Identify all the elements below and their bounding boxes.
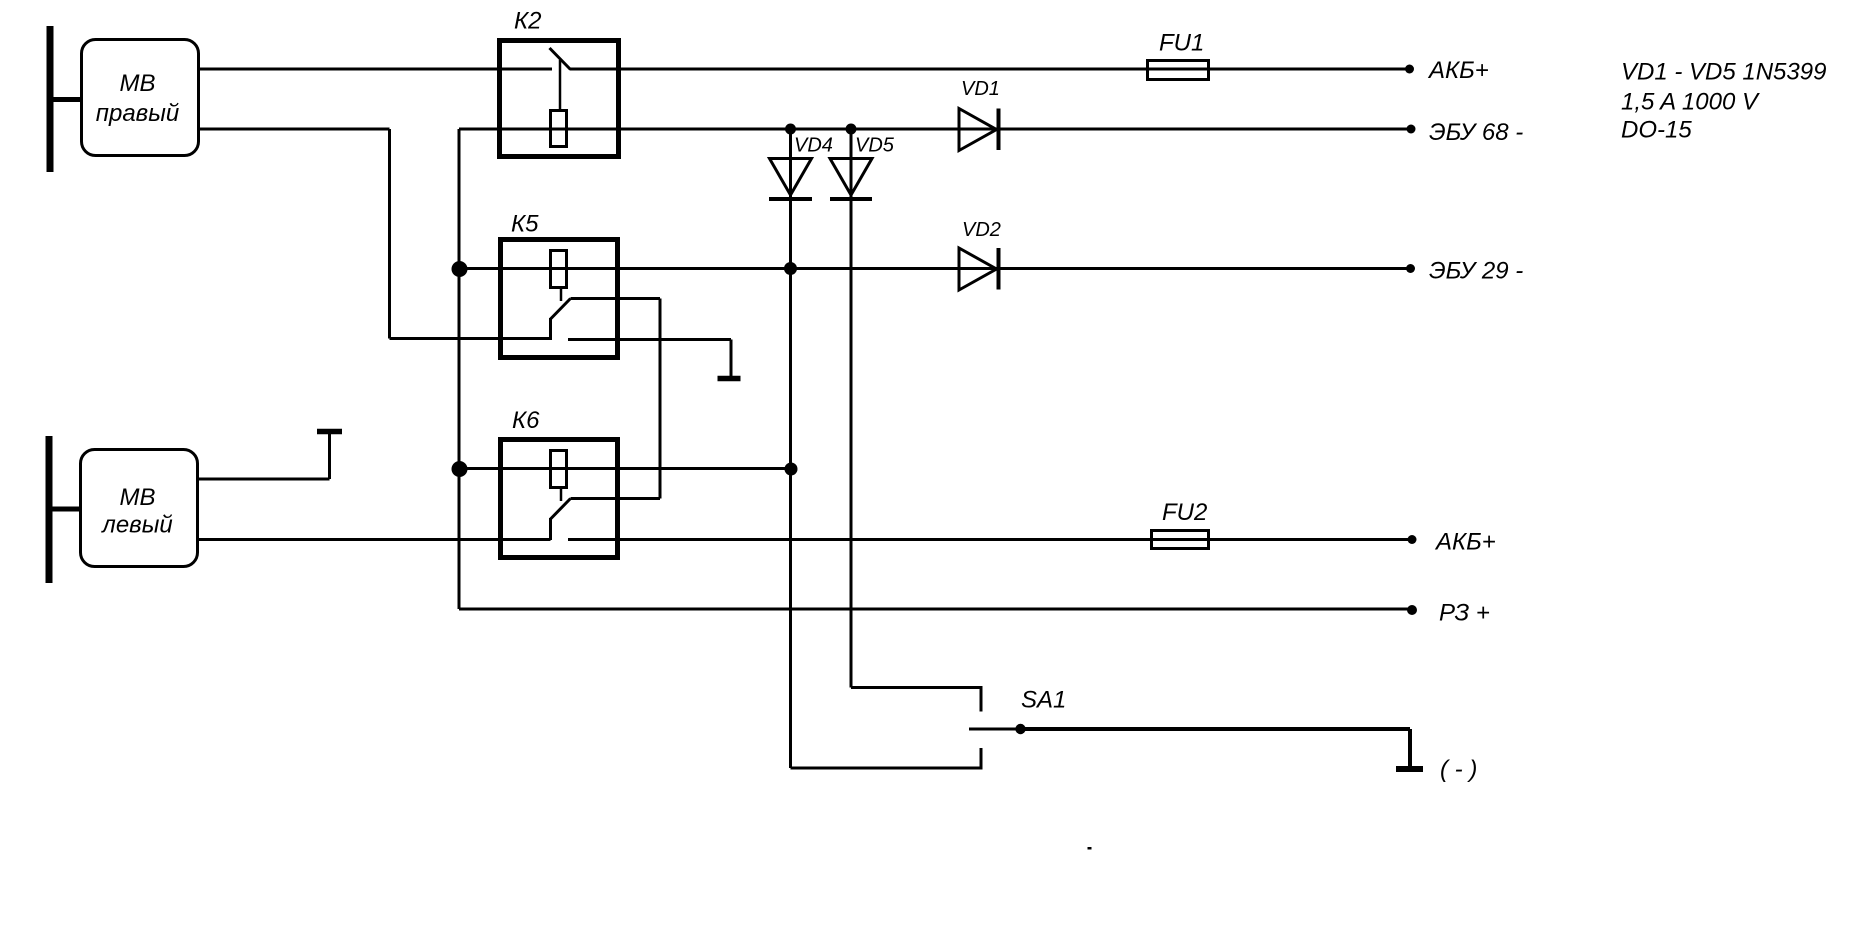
svg-text:РЗ +: РЗ + [1439, 600, 1490, 627]
wire EBU68 line y129 [459, 128, 1410, 131]
wire VD5 vertical x851 [850, 129, 853, 688]
svg-text:К5: К5 [511, 211, 539, 238]
wire MB left top to chassis [197, 478, 330, 481]
relay K5 blade pivot stub [549, 318, 552, 340]
diode VD5 cathode bar [830, 197, 872, 201]
svg-text:FU2: FU2 [1162, 499, 1207, 526]
node VD5 top junction [846, 124, 857, 135]
svg-text:SA1: SA1 [1021, 687, 1066, 714]
svg-text:правый: правый [96, 100, 179, 127]
diode VD1 [959, 109, 997, 151]
motor block MB left [81, 450, 198, 567]
svg-text:ЭБУ 68 -: ЭБУ 68 - [1429, 119, 1523, 146]
svg-text:левый: левый [100, 512, 172, 539]
wire vertical x660 K5 to K6 [659, 299, 662, 499]
relay K2 actuator link [559, 60, 562, 110]
motor MB right stub wire [52, 97, 82, 102]
svg-text:VD5: VD5 [855, 135, 895, 157]
wire vertical down at x389 [388, 129, 391, 339]
wire K6 coil feed [459, 467, 791, 470]
motor MB right terminal bar [47, 26, 54, 172]
diode VD5 [830, 159, 872, 196]
svg-text:АКБ+: АКБ+ [1434, 529, 1496, 556]
node K6 coil to VD4 junction [785, 463, 798, 476]
relay K5 coil to blade link [560, 288, 563, 301]
connector stub upper SA1 [980, 686, 983, 712]
relay K6 coil [551, 451, 567, 488]
switch SA1 pivot dot [1015, 724, 1025, 734]
motor block MB right [82, 40, 199, 156]
svg-text:VD4: VD4 [794, 135, 833, 157]
ground chassis bar K5 [718, 376, 741, 382]
wire VD5 to SA1 upper [851, 686, 981, 689]
wire K2 output to FU1 and AKB+ [570, 68, 1409, 71]
svg-text:МВ: МВ [120, 484, 156, 511]
node K6 coil junction [452, 461, 468, 477]
connector stub lower SA1 [980, 748, 983, 770]
wire K6 NO contact to x660 [571, 497, 661, 500]
svg-text:1,5 A 1000 V: 1,5 A 1000 V [1621, 89, 1760, 116]
node K5 coil junction [452, 261, 468, 277]
svg-text:К6: К6 [512, 407, 540, 434]
diode VD2 cathode bar [997, 248, 1001, 290]
diode VD4 cathode bar [769, 197, 812, 201]
wire SA1 to minus [1021, 727, 1411, 731]
relay K6 box [501, 440, 618, 558]
relay K5 switch blade [551, 299, 571, 320]
svg-text:FU1: FU1 [1159, 30, 1204, 57]
svg-text:DO-15: DO-15 [1621, 117, 1692, 144]
wire K5 right contact [568, 338, 731, 341]
terminal dot AKB+ bottom [1408, 535, 1417, 544]
ground chassis bar minus [1396, 766, 1423, 772]
node VD4 top junction [785, 124, 796, 135]
wire minus drop [1408, 729, 1412, 767]
wire MB left bottom to K6 common [197, 538, 551, 541]
diode VD1 cathode bar [997, 109, 1001, 151]
terminal dot AKB+ top [1405, 65, 1414, 74]
wire K5 contact ground drop [730, 340, 733, 377]
wire VD4 to SA1 lower [791, 767, 982, 770]
wire VD4 vertical x790 [789, 129, 792, 768]
svg-text:МВ: МВ [120, 70, 156, 97]
svg-text:VD2: VD2 [962, 219, 1001, 241]
wire RZ+ line y609 [459, 608, 1412, 611]
diode VD4 [770, 159, 812, 196]
relay K5 coil [551, 251, 567, 288]
relay K6 blade pivot stub [549, 518, 552, 540]
relay K5 box [501, 240, 618, 358]
diode VD2 [959, 248, 997, 290]
svg-text:( - ): ( - ) [1440, 756, 1477, 783]
node VD4 anode junction [784, 262, 797, 275]
fuse FU1 [1148, 61, 1209, 80]
wire MB right top to K2 [198, 68, 552, 71]
terminal dot EBU68 [1407, 125, 1416, 134]
switch SA1 blade [969, 728, 1021, 731]
relay K2 box [500, 41, 619, 157]
svg-text:VD1: VD1 [961, 78, 1000, 100]
relay K6 coil to blade link [560, 488, 563, 501]
relay K2 coil [551, 111, 567, 147]
terminal dot EBU29 [1406, 264, 1415, 273]
motor MB left terminal bar [46, 436, 53, 583]
wire K6 right contact to FU2 [568, 538, 1412, 541]
wire EBU29 line y268 [459, 267, 1410, 270]
svg-text:VD1 - VD5 1N5399: VD1 - VD5 1N5399 [1621, 59, 1826, 86]
motor MB left stub wire [51, 507, 81, 512]
wire chassis riser [328, 432, 331, 479]
wire vertical bus x459 [458, 129, 461, 609]
fuse FU2 [1152, 531, 1209, 549]
svg-text:К2: К2 [514, 8, 542, 35]
wire MB right bottom horizontal [198, 128, 390, 131]
stray mark [1088, 847, 1092, 850]
relay K6 switch blade [551, 499, 571, 520]
relay K2 switch blade [550, 48, 571, 70]
svg-text:АКБ+: АКБ+ [1427, 57, 1489, 84]
svg-text:ЭБУ 29 -: ЭБУ 29 - [1429, 258, 1523, 285]
wire to K5 common contact [390, 337, 552, 340]
terminal dot RZ+ [1407, 605, 1417, 615]
ground chassis bar MB left [317, 429, 342, 435]
wire K5 NO contact to x660 [571, 297, 661, 300]
